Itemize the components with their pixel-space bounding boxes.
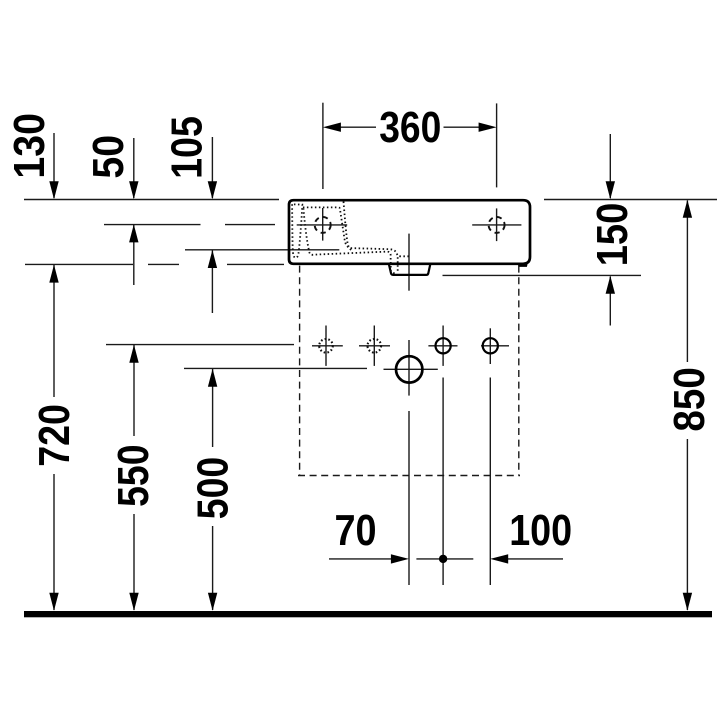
svg-text:720: 720	[30, 404, 79, 467]
node left hole crosshair horizontal	[297, 224, 348, 226]
node hole c4 crosshair vertical	[489, 328, 491, 364]
arrowhead dim 360 left	[323, 123, 341, 132]
arrowhead dim 500 up	[208, 369, 217, 387]
wire dim 70 line shaft	[329, 558, 391, 560]
wire dim 130 pointer line top	[53, 133, 55, 198]
wire dim 360 line left shaft	[340, 126, 376, 128]
svg-text:70: 70	[335, 506, 377, 555]
wire dim 105 pointer line top	[211, 137, 213, 198]
node hole c4 crosshair horizontal	[481, 345, 509, 347]
optional hole c2 dotted circle	[368, 339, 382, 353]
basin hidden profile: rim top and inner right wall with ledge	[303, 207, 409, 256]
arrowhead dim 105 up	[208, 250, 217, 268]
wire 550 reference line	[106, 344, 294, 346]
wire hole c3 centerline lower	[442, 378, 444, 586]
wire dim 550 line lower	[133, 514, 135, 610]
dashed pedestal region left line	[299, 266, 301, 476]
svg-text:105: 105	[162, 116, 211, 179]
node hole centerline y224 seg2	[225, 224, 275, 226]
node dotted hole c1 crosshair vertical	[325, 326, 327, 366]
wire top reference line right segment	[544, 199, 717, 201]
arrowhead dim 550 up	[129, 345, 138, 363]
wire dim 360 line right shaft	[444, 126, 480, 128]
arrowhead dim 500 down at floor	[208, 593, 217, 611]
arrowhead dim 850 up	[683, 200, 692, 218]
svg-text:150: 150	[588, 203, 637, 267]
wire dim 500 line lower	[212, 526, 214, 610]
arrowhead dim 720 down at floor	[49, 593, 58, 611]
svg-text:100: 100	[509, 506, 572, 555]
svg-text:850: 850	[665, 367, 714, 432]
mounting hole left dashed circle	[315, 217, 331, 233]
arrowhead dim 550 down at floor	[129, 593, 138, 611]
wire drain centerline segment lower	[408, 411, 410, 585]
basin hidden profile: left inner wall and floor	[303, 208, 397, 273]
basin hidden profile: drain pipe vertical	[397, 257, 399, 273]
hole c3 circle	[436, 338, 451, 353]
sink small foot bottom right	[519, 264, 527, 266]
wire dim 360 extension line left	[322, 103, 324, 189]
node right hole crosshair vertical	[496, 208, 498, 241]
hole c4 circle	[483, 338, 498, 353]
node drain circle crosshair horizontal	[384, 368, 438, 370]
node right hole crosshair horizontal	[472, 224, 521, 226]
svg-text:500: 500	[189, 457, 238, 520]
node hole c3 crosshair horizontal	[428, 345, 457, 347]
wire dim 50 tail below	[133, 225, 135, 285]
dashed pedestal region bottom line	[298, 475, 520, 477]
arrowhead dim 150 up	[606, 276, 615, 294]
floor line	[24, 611, 712, 617]
wire sink bottom reference y264 seg3	[227, 263, 284, 265]
drain outlet trapezoid	[389, 265, 430, 275]
node reference dot on dim line	[439, 555, 447, 563]
drain circle	[396, 356, 422, 382]
wire basin depth 105 reference line	[185, 249, 339, 251]
wire dim 50 pointer line top	[133, 138, 135, 198]
wire dim 150 tail below	[609, 277, 611, 326]
arrowhead dim 360 right	[479, 123, 497, 132]
wire hole c4 centerline lower	[489, 378, 491, 586]
wire dim 360 extension line right	[496, 103, 498, 187]
node hole c3 crosshair vertical	[442, 326, 444, 366]
wire dim 70-100 middle segment	[416, 558, 473, 560]
mounting hole right dashed circle	[489, 217, 505, 233]
wire dim 100 line shaft	[508, 558, 563, 560]
arrowhead dim 70 right	[391, 554, 409, 563]
arrowhead dim 130 down at top line	[49, 181, 58, 199]
wire dim 550 line upper	[133, 345, 135, 436]
wire dim 850 line upper	[686, 201, 688, 363]
wire dim 500 line upper	[212, 369, 214, 447]
node dotted hole c2 crosshair horizontal	[359, 345, 390, 347]
optional hole c1 dotted circle	[319, 339, 333, 353]
wire dim 720 line upper	[53, 265, 55, 397]
basin hidden profile: left overflow loop	[292, 204, 302, 257]
wire dim 105 tail below	[211, 250, 213, 313]
svg-text:50: 50	[84, 135, 133, 179]
arrowhead dim 850 down at floor	[683, 593, 692, 611]
node dotted hole c1 crosshair horizontal	[312, 345, 343, 347]
svg-text:130: 130	[5, 113, 54, 179]
wire dim 850 line lower	[686, 439, 688, 610]
svg-text:360: 360	[379, 103, 441, 152]
wire drain centerline segment in sink	[408, 234, 410, 291]
node dotted hole c2 crosshair vertical	[373, 326, 375, 366]
arrowhead dim 105 down at top line	[208, 181, 217, 199]
node hole centerline y224 seg1	[104, 224, 201, 226]
arrowhead dim 50 up	[129, 224, 138, 242]
wire sink bottom reference y264 seg2	[148, 263, 179, 265]
wire drain bottom 150 reference line	[443, 274, 642, 276]
wire dim 150 pointer line top	[609, 134, 611, 198]
arrowhead dim 100 left	[490, 554, 508, 563]
arrowhead dim 720 up	[49, 265, 58, 283]
svg-text:550: 550	[109, 444, 158, 507]
arrowhead dim 150 down	[606, 181, 615, 199]
node drain circle crosshair vertical	[408, 340, 410, 396]
wire dim 720 line lower	[53, 474, 55, 610]
node left hole crosshair vertical	[322, 208, 324, 241]
wire top reference line left segment	[24, 199, 279, 201]
wire 500 reference line	[184, 367, 367, 369]
sink outline side view	[289, 200, 530, 264]
wire sink bottom reference y264 seg1	[25, 263, 133, 265]
dashed pedestal region right line	[518, 266, 520, 476]
arrowhead dim 50 down at top line	[129, 181, 138, 199]
basin hidden profile: outer right wall	[344, 202, 353, 252]
